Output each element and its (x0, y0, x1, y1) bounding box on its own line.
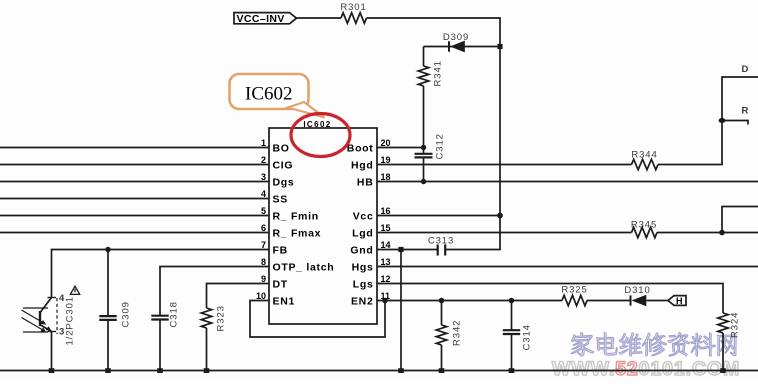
wire pin15 Lgd to R345 (377, 232, 632, 234)
wire EN2 pin11 to R325 (377, 300, 562, 302)
svg-text:16: 16 (381, 206, 391, 216)
wire pin12 Lgs to R324 (377, 284, 723, 314)
svg-text:R323: R323 (216, 305, 227, 331)
svg-text:BO: BO (273, 142, 290, 154)
svg-text:1/2PC301: 1/2PC301 (65, 296, 76, 345)
diode D309 (443, 32, 469, 52)
svg-text:CIG: CIG (273, 159, 294, 171)
op-amp U1 IC602 chip body (269, 128, 377, 324)
svg-text:Hgs: Hgs (352, 261, 374, 273)
svg-text:Vcc: Vcc (353, 210, 374, 222)
svg-text:14: 14 (381, 240, 391, 250)
svg-text:SS: SS (273, 193, 288, 205)
svg-text:C312: C312 (435, 133, 446, 159)
watermark 家电维修资料网 (571, 332, 736, 356)
capacitor C312 (415, 133, 446, 181)
svg-text:R301: R301 (340, 2, 366, 13)
svg-text:Hgd: Hgd (351, 159, 374, 171)
svg-text:C318: C318 (169, 301, 180, 327)
node rail junction x=723 (720, 368, 726, 373)
svg-text:IC602: IC602 (303, 120, 331, 129)
resistor R342 (436, 298, 462, 371)
node IC602 callout bubble (230, 74, 325, 118)
resistor R301 (340, 2, 366, 23)
svg-text:Lgs: Lgs (353, 278, 374, 290)
wire pin18 HB to right edge (377, 181, 758, 183)
svg-text:C314: C314 (522, 324, 533, 350)
svg-text:D309: D309 (443, 32, 469, 43)
svg-text:D310: D310 (624, 285, 650, 296)
resistor R341 (418, 47, 443, 154)
svg-text:9: 9 (261, 274, 266, 284)
svg-text:Boot: Boot (347, 142, 374, 154)
svg-text:R_ Fmin: R_ Fmin (273, 210, 319, 222)
node C312/HB junction (421, 179, 426, 184)
wire pin14 Gnd stub (377, 249, 437, 251)
wire R344 to top right corner (658, 77, 758, 165)
watermark WWW.520101.COM (552, 358, 740, 380)
wire Gnd to bottom rail (400, 250, 402, 371)
svg-text:11: 11 (381, 291, 391, 301)
wire pin2 net to left edge (0, 164, 269, 166)
svg-text:WWW.520101.COM: WWW.520101.COM (552, 358, 740, 379)
wire C313 to Vcc node (445, 216, 500, 250)
svg-text:5: 5 (261, 206, 266, 216)
node FB/C309 junction (105, 247, 110, 252)
wire EN1 pin10 loop to EN2 pin11 (250, 301, 385, 338)
svg-text:4: 4 (261, 189, 266, 199)
node top-right junction (719, 118, 726, 123)
svg-text:R325: R325 (561, 285, 587, 296)
svg-text:R344: R344 (631, 150, 657, 161)
node rail junction x=108 (105, 368, 111, 373)
capacitor C309 (99, 250, 131, 371)
wire D310 to H flag (646, 300, 668, 302)
wire pin1 net to left edge (0, 147, 269, 149)
node rail junction x=401 (398, 368, 404, 373)
wire pin5 net to left edge (0, 215, 269, 217)
svg-text:20: 20 (381, 138, 391, 148)
node rail junction x=160 (157, 368, 163, 373)
svg-text:19: 19 (381, 155, 391, 165)
svg-text:3: 3 (261, 172, 266, 182)
node VCC-INV flag (234, 13, 297, 25)
resistor R324 (718, 312, 741, 371)
svg-text:2: 2 (261, 155, 266, 165)
svg-text:R_ Fmax: R_ Fmax (273, 227, 322, 239)
capacitor C318 (151, 301, 179, 370)
svg-text:C309: C309 (121, 301, 132, 327)
diode D310 (624, 285, 650, 306)
capacitor C313 (428, 236, 454, 256)
svg-text:Gnd: Gnd (350, 244, 373, 256)
svg-text:13: 13 (381, 257, 391, 267)
node EN2 junction (382, 298, 388, 304)
wire pin19 Hgd to R344 (377, 164, 632, 166)
wire opto emitter to ground rail (51, 332, 53, 371)
node Vcc junction (497, 213, 503, 219)
node Lgd junction (719, 230, 725, 236)
warning triangle symbol (70, 286, 79, 294)
svg-text:Dgs: Dgs (273, 176, 295, 188)
svg-text:R341: R341 (433, 60, 444, 86)
capacitor C314 (503, 298, 533, 371)
wire pin20 Boot stub (377, 147, 424, 149)
resistor R344 (631, 150, 658, 170)
node rail junction x=51.5 (49, 368, 55, 373)
wire pin13 Hgs to right edge (377, 266, 758, 268)
node rail junction x=511.5 (509, 368, 515, 373)
wire OTP_latch pin8 to C318 (160, 267, 269, 316)
svg-text:C313: C313 (428, 236, 454, 247)
wire R325 to D310 (587, 300, 630, 302)
svg-text:EN2: EN2 (351, 295, 374, 307)
wire FB pin7 to opto/C309 (52, 250, 270, 298)
resistor R325 (561, 285, 587, 306)
svg-text:R342: R342 (452, 320, 463, 346)
transistor 1/2PC301 optocoupler (22, 293, 76, 346)
node Boot junction (421, 145, 426, 150)
svg-text:1: 1 (261, 138, 266, 148)
node rail junction x=206.5 (204, 368, 210, 373)
svg-text:FB: FB (273, 244, 288, 256)
svg-text:7: 7 (261, 240, 266, 250)
wire R345 to right edge (657, 232, 758, 234)
svg-text:OTP_ latch: OTP_ latch (273, 261, 335, 273)
resistor R323 (201, 305, 226, 370)
wire DT pin9 to R323 (207, 284, 270, 309)
svg-text:10: 10 (256, 291, 266, 301)
svg-text:VCC–INV: VCC–INV (237, 13, 285, 25)
svg-text:HB: HB (357, 176, 374, 188)
svg-text:D: D (742, 64, 750, 75)
svg-text:12: 12 (381, 274, 391, 284)
wire R301 to vertical bus (367, 18, 501, 216)
svg-text:IC602: IC602 (245, 84, 293, 105)
svg-text:Lgd: Lgd (352, 227, 373, 239)
svg-text:6: 6 (261, 223, 266, 233)
wire Lgd branch up to right edge (722, 207, 758, 233)
node H flag (668, 296, 686, 307)
svg-text:R324: R324 (730, 312, 741, 338)
svg-text:R: R (742, 106, 750, 117)
wire ground rail (0, 370, 758, 372)
wire pin16 Vcc (377, 215, 500, 217)
svg-text:18: 18 (381, 172, 391, 182)
wire D309 branch (424, 46, 501, 48)
wire R-net stub (722, 121, 748, 125)
wire pin3 net to left edge (0, 181, 269, 183)
node rail junction x=441.5 (439, 368, 445, 373)
svg-text:R345: R345 (631, 220, 657, 231)
svg-text:15: 15 (381, 223, 391, 233)
resistor R345 (631, 220, 657, 238)
node Gnd junction (398, 247, 403, 252)
svg-text:DT: DT (273, 278, 288, 290)
wire VCC-INV to R301 (297, 17, 342, 19)
svg-text:8: 8 (261, 257, 266, 267)
svg-text:EN1: EN1 (273, 295, 296, 307)
node red highlight ellipse (291, 114, 350, 157)
svg-text:H: H (676, 296, 683, 306)
wire pin6 net to left edge (0, 232, 269, 234)
node D309 junction (497, 44, 502, 49)
wire pin4 net to left edge (0, 198, 269, 200)
